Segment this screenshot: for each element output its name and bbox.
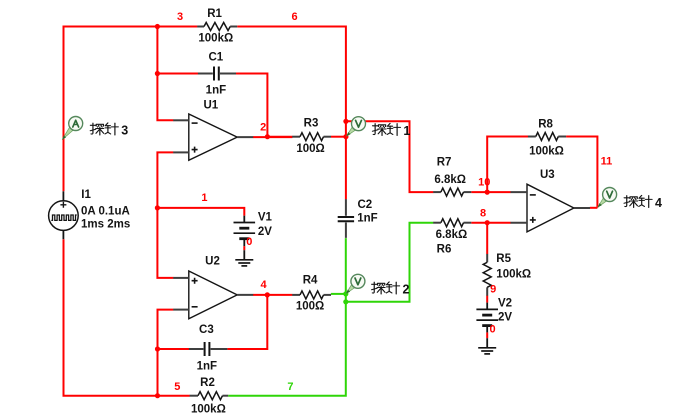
svg-text:8: 8	[480, 207, 486, 219]
svg-text:V1: V1	[258, 212, 273, 224]
svg-text:3: 3	[121, 124, 128, 138]
svg-text:1: 1	[403, 124, 410, 138]
svg-text:6.8kΩ: 6.8kΩ	[436, 229, 468, 241]
svg-text:1ms 2ms: 1ms 2ms	[81, 219, 130, 231]
svg-text:I1: I1	[81, 189, 91, 201]
svg-text:4: 4	[655, 196, 662, 210]
svg-text:R2: R2	[200, 377, 215, 389]
svg-text:R5: R5	[496, 253, 511, 265]
svg-text:100kΩ: 100kΩ	[496, 268, 531, 280]
svg-text:100kΩ: 100kΩ	[191, 403, 226, 415]
svg-text:1: 1	[201, 192, 207, 204]
svg-text:R6: R6	[437, 244, 452, 256]
svg-text:4: 4	[261, 279, 268, 291]
svg-text:10: 10	[478, 176, 490, 188]
svg-text:2: 2	[260, 122, 266, 134]
svg-text:9: 9	[490, 284, 496, 296]
svg-text:6.8kΩ: 6.8kΩ	[434, 174, 466, 186]
svg-text:0A 0.1uA: 0A 0.1uA	[81, 206, 130, 218]
svg-text:5: 5	[174, 381, 180, 393]
svg-text:3: 3	[177, 11, 183, 23]
svg-text:C2: C2	[358, 199, 373, 211]
svg-text:2V: 2V	[498, 311, 512, 323]
svg-text:100Ω: 100Ω	[296, 143, 324, 155]
svg-text:U3: U3	[540, 169, 555, 181]
svg-text:100kΩ: 100kΩ	[529, 145, 564, 157]
svg-text:2V: 2V	[258, 226, 272, 238]
svg-text:100Ω: 100Ω	[296, 301, 324, 313]
svg-text:R4: R4	[303, 275, 318, 287]
svg-text:R7: R7	[437, 156, 452, 168]
svg-text:U2: U2	[205, 256, 220, 268]
svg-text:0: 0	[246, 236, 252, 248]
svg-text:V2: V2	[498, 297, 512, 309]
svg-text:C3: C3	[199, 324, 214, 336]
svg-text:7: 7	[287, 381, 293, 393]
svg-text:0: 0	[489, 323, 495, 335]
svg-text:6: 6	[292, 11, 298, 23]
svg-text:1nF: 1nF	[357, 213, 377, 225]
svg-text:1nF: 1nF	[206, 85, 226, 97]
svg-text:C1: C1	[208, 52, 223, 64]
svg-text:1nF: 1nF	[197, 361, 217, 373]
svg-text:R3: R3	[304, 118, 319, 130]
svg-text:U1: U1	[203, 100, 218, 112]
svg-text:R1: R1	[207, 8, 222, 20]
svg-text:11: 11	[601, 155, 613, 167]
svg-text:2: 2	[403, 283, 410, 297]
svg-text:R8: R8	[538, 118, 553, 130]
svg-text:100kΩ: 100kΩ	[198, 33, 233, 45]
